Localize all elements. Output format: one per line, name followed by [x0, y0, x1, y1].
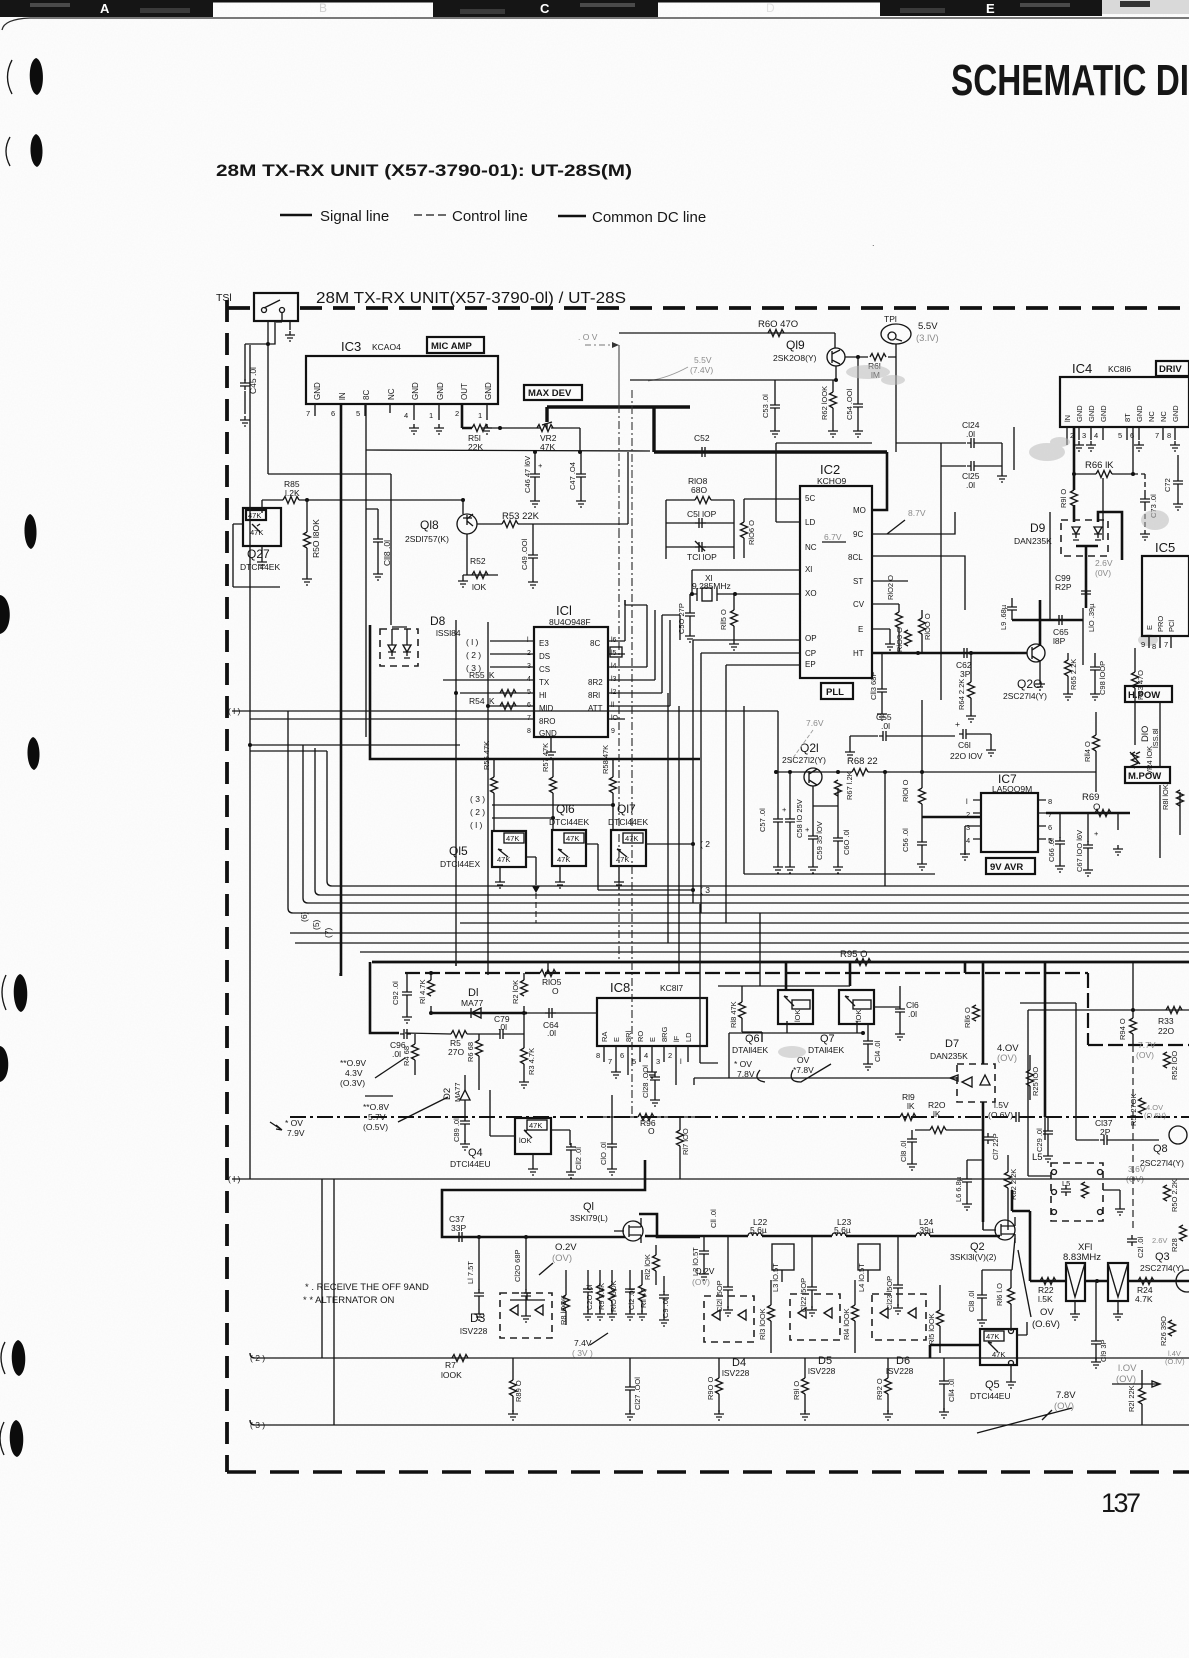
svg-text:C9 .0l: C9 .0l — [661, 1298, 670, 1318]
svg-text:C2l .0l: C2l .0l — [1136, 1236, 1145, 1258]
svg-text:DAN235K: DAN235K — [930, 1051, 968, 1061]
svg-text:C29 .0l: C29 .0l — [1035, 1128, 1044, 1152]
svg-text:R26 39O: R26 39O — [1159, 1316, 1168, 1346]
svg-text:C57 .0l: C57 .0l — [758, 808, 767, 832]
svg-text:KC8l6: KC8l6 — [1108, 364, 1131, 374]
svg-text:( l ): ( l ) — [228, 706, 240, 716]
svg-text:R89 O: R89 O — [514, 1380, 523, 1402]
svg-text:PLL: PLL — [826, 687, 844, 698]
svg-text:5.5V: 5.5V — [918, 321, 938, 332]
svg-text:Q7: Q7 — [820, 1033, 835, 1045]
svg-text:lOOK: lOOK — [441, 1370, 462, 1380]
svg-text:Rll4 O: Rll4 O — [1083, 741, 1092, 762]
svg-text:LlO .39µ: LlO .39µ — [1087, 603, 1096, 632]
svg-text:R53 22K: R53 22K — [502, 511, 540, 522]
svg-text:DAN235K: DAN235K — [1014, 536, 1052, 546]
svg-text:(O.lV): (O.lV) — [1165, 1357, 1185, 1366]
svg-text:( 3V ): ( 3V ) — [572, 1348, 593, 1358]
svg-text:2: 2 — [966, 810, 970, 819]
svg-text:l8P: l8P — [1053, 636, 1066, 646]
svg-text:**O.8V: **O.8V — [363, 1102, 389, 1112]
svg-text:OUT: OUT — [460, 383, 469, 400]
svg-text:R2P: R2P — [1055, 582, 1072, 592]
svg-text:R94 O: R94 O — [1118, 1018, 1127, 1040]
svg-text:*7.8V: *7.8V — [793, 1065, 814, 1075]
svg-text:E: E — [986, 1, 995, 16]
svg-text:R7: R7 — [445, 1360, 456, 1370]
svg-text:(O.5V): (O.5V) — [363, 1122, 388, 1132]
svg-text:C58 lO 25V: C58 lO 25V — [795, 799, 804, 838]
svg-text:9: 9 — [611, 728, 615, 735]
svg-text:RlO2 O: RlO2 O — [886, 575, 895, 600]
svg-text:Hl: Hl — [539, 691, 547, 700]
svg-text:R58 47K: R58 47K — [601, 745, 610, 774]
svg-text:DTCl44EU: DTCl44EU — [450, 1159, 491, 1169]
svg-text:.0l: .0l — [966, 480, 975, 490]
svg-text:lSV228: lSV228 — [722, 1368, 750, 1378]
svg-text:D3: D3 — [470, 1311, 486, 1325]
svg-text:R62 lOOK: R62 lOOK — [820, 386, 829, 420]
svg-text:.39µ: .39µ — [917, 1225, 934, 1235]
svg-text:C2O .0l: C2O .0l — [585, 1284, 594, 1310]
svg-text:C56 .0l: C56 .0l — [901, 828, 910, 852]
svg-text:XO: XO — [805, 589, 817, 598]
svg-text:GND: GND — [411, 382, 420, 400]
svg-text:( l ): ( l ) — [470, 820, 482, 830]
svg-text:R68 22: R68 22 — [847, 756, 878, 767]
svg-text:8C: 8C — [362, 390, 371, 400]
svg-text:Cl2O 68P: Cl2O 68P — [513, 1249, 522, 1282]
svg-text:Common DC line: Common DC line — [592, 209, 706, 226]
svg-text:lOK: lOK — [793, 1009, 802, 1022]
svg-text:R5O 2.2K: R5O 2.2K — [1170, 1179, 1179, 1212]
svg-text:CV: CV — [853, 600, 865, 609]
svg-text:( 2 ): ( 2 ) — [466, 650, 481, 660]
svg-text:DRlV: DRlV — [1159, 364, 1182, 375]
svg-text:IC8: IC8 — [610, 980, 630, 995]
svg-text:RO: RO — [636, 1031, 645, 1042]
svg-text:lOK: lOK — [854, 1009, 863, 1022]
svg-text:7: 7 — [1048, 810, 1052, 819]
svg-text:28M TX-RX UNIT(X57-3790-0l) /: 28M TX-RX UNIT(X57-3790-0l) / UT-28S — [316, 290, 626, 307]
svg-text:47K: 47K — [540, 442, 555, 452]
svg-text:.0l: .0l — [908, 1009, 917, 1019]
svg-text:O.2V: O.2V — [555, 1242, 577, 1253]
svg-text:8T: 8T — [1123, 413, 1132, 422]
svg-text:8: 8 — [1152, 642, 1156, 651]
svg-text:NC: NC — [1159, 411, 1168, 422]
svg-text:ICl: ICl — [556, 603, 572, 618]
svg-text:47K: 47K — [566, 834, 579, 843]
svg-text:lSS.8l: lSS.8l — [1151, 728, 1160, 748]
svg-text:7.4V: 7.4V — [574, 1338, 592, 1348]
svg-text:7: 7 — [1164, 640, 1168, 649]
svg-text:.0l: .0l — [881, 721, 890, 731]
svg-text:DTCl44EK: DTCl44EK — [240, 562, 280, 572]
svg-text:7.8V: 7.8V — [1056, 1390, 1076, 1401]
svg-text:5: 5 — [632, 1057, 636, 1066]
svg-text:6.7V: 6.7V — [824, 532, 842, 542]
svg-text:R33: R33 — [1158, 1016, 1174, 1026]
svg-text:DS: DS — [539, 652, 550, 661]
svg-text:6: 6 — [331, 409, 335, 418]
svg-text:Ll 7.5T: Ll 7.5T — [466, 1261, 475, 1284]
svg-text:Rl6 l.O: Rl6 l.O — [995, 1283, 1004, 1306]
svg-text:.0l: .0l — [966, 429, 975, 439]
svg-text:C98 lOOP: C98 lOOP — [1098, 661, 1107, 695]
svg-text:Signal line: Signal line — [320, 208, 389, 225]
svg-text:3: 3 — [1082, 431, 1086, 440]
svg-text:8: 8 — [596, 1051, 600, 1060]
svg-text:Rl3 lOOK: Rl3 lOOK — [758, 1308, 767, 1340]
svg-text:KCAO4: KCAO4 — [372, 342, 401, 352]
svg-text:(O.6V): (O.6V) — [1144, 1111, 1167, 1120]
svg-text:GND: GND — [1171, 405, 1180, 422]
svg-text:Cll4 .0l: Cll4 .0l — [947, 1379, 956, 1402]
svg-text:NC: NC — [1147, 411, 1156, 422]
svg-text:4.7K: 4.7K — [1135, 1294, 1153, 1304]
svg-text:2: 2 — [668, 1051, 672, 1060]
svg-text:8RO: 8RO — [539, 717, 555, 726]
svg-text:DTCl44EX: DTCl44EX — [440, 859, 480, 869]
svg-text:47K: 47K — [616, 855, 629, 864]
svg-text:DlO: DlO — [1140, 726, 1151, 742]
svg-text:D9: D9 — [1030, 521, 1046, 535]
svg-text:lK: lK — [907, 1101, 915, 1111]
svg-text:GND: GND — [484, 382, 493, 400]
svg-text:2.6V: 2.6V — [1152, 1236, 1167, 1245]
svg-text:(5): (5) — [311, 919, 321, 930]
svg-text:LD: LD — [684, 1032, 693, 1042]
svg-text:8RG: 8RG — [660, 1026, 669, 1042]
svg-text:7.9V: 7.9V — [287, 1128, 305, 1138]
svg-text:4.3V: 4.3V — [345, 1068, 363, 1078]
svg-text:8C: 8C — [590, 639, 600, 648]
svg-text:7.6V: 7.6V — [806, 718, 824, 728]
svg-text:2SC27l4(Y): 2SC27l4(Y) — [1140, 1263, 1184, 1273]
svg-text:GND: GND — [1075, 405, 1084, 422]
svg-text:5.5V: 5.5V — [694, 355, 712, 365]
svg-text:(O.6V): (O.6V) — [988, 1110, 1013, 1120]
svg-text:Rl 4.7K: Rl 4.7K — [418, 979, 427, 1004]
svg-text:C: C — [540, 1, 550, 16]
svg-text:DTCl44EU: DTCl44EU — [970, 1391, 1011, 1401]
svg-text:RlOl O: RlOl O — [901, 779, 910, 802]
svg-text:R55 lK: R55 lK — [469, 670, 495, 680]
svg-text:(OV): (OV) — [997, 1053, 1017, 1064]
svg-text:KCHO9: KCHO9 — [817, 476, 847, 486]
svg-text:DTCl44EK: DTCl44EK — [608, 817, 648, 827]
svg-text:O: O — [648, 1126, 655, 1136]
svg-text:C59 35 lOV: C59 35 lOV — [815, 821, 824, 860]
svg-text:* OV: * OV — [285, 1118, 303, 1128]
svg-text:* OV: * OV — [734, 1059, 752, 1069]
svg-text:2P: 2P — [1100, 1127, 1111, 1137]
svg-text:R6 68: R6 68 — [466, 1042, 475, 1062]
svg-text:Rl5 lOOK: Rl5 lOOK — [927, 1313, 936, 1345]
svg-text:RA: RA — [600, 1032, 609, 1042]
svg-text:8Rl: 8Rl — [588, 691, 600, 700]
svg-text:KC8l7: KC8l7 — [660, 983, 683, 993]
svg-text:3SKl79(L): 3SKl79(L) — [570, 1213, 608, 1223]
svg-text:GND: GND — [1135, 405, 1144, 422]
svg-text:Q2l: Q2l — [800, 741, 819, 755]
svg-text:7: 7 — [1155, 431, 1159, 440]
svg-text:H.POW: H.POW — [1128, 690, 1160, 701]
svg-text:7: 7 — [306, 409, 310, 418]
svg-text:R3 4.7K: R3 4.7K — [527, 1048, 536, 1075]
svg-text:68O: 68O — [691, 485, 707, 495]
svg-text:47K: 47K — [497, 855, 510, 864]
svg-text:lK: lK — [933, 1109, 941, 1119]
svg-text:Cll .0l: Cll .0l — [709, 1209, 718, 1228]
svg-text:5: 5 — [1118, 431, 1122, 440]
svg-text:Ql9: Ql9 — [786, 338, 805, 352]
svg-text:28M TX-RX UNIT (X57-3790-01):: 28M TX-RX UNIT (X57-3790-01): UT-28S(M) — [216, 161, 632, 180]
svg-text:IC2: IC2 — [820, 462, 840, 477]
svg-text:L6 6.8µ: L6 6.8µ — [954, 1176, 963, 1202]
svg-text:E: E — [1145, 625, 1154, 630]
svg-text:**O.9V: **O.9V — [340, 1058, 366, 1068]
svg-text:C6O .0l: C6O .0l — [842, 829, 851, 855]
svg-text:Ql8: Ql8 — [420, 518, 439, 532]
svg-text:SCHEMATIC DI: SCHEMATIC DI — [951, 56, 1189, 105]
svg-text:7: 7 — [608, 1057, 612, 1066]
svg-text:Cll2 .0l: Cll2 .0l — [574, 1147, 583, 1170]
svg-text:Rll6 O: Rll6 O — [963, 1007, 972, 1028]
svg-text:R57 47K: R57 47K — [541, 743, 550, 772]
svg-text:R92 O: R92 O — [875, 1378, 884, 1400]
svg-text:Cl28 .OOl: Cl28 .OOl — [641, 1065, 650, 1098]
svg-text:OV: OV — [1040, 1307, 1054, 1318]
svg-text:R6O 47O: R6O 47O — [758, 319, 798, 330]
svg-text:Rl7 lOO: Rl7 lOO — [681, 1128, 690, 1155]
svg-text:5: 5 — [356, 409, 360, 418]
svg-text:2SC27l4(Y): 2SC27l4(Y) — [1140, 1158, 1184, 1168]
svg-text:PRO: PRO — [1156, 616, 1165, 632]
svg-text:Cll8 .0l: Cll8 .0l — [382, 540, 392, 566]
svg-text:R8l lOK: R8l lOK — [1161, 784, 1170, 810]
svg-text:. O V: . O V — [578, 332, 598, 342]
svg-text:R82 2.2K: R82 2.2K — [1009, 1169, 1018, 1200]
svg-text:C47 .O4: C47 .O4 — [568, 462, 577, 490]
svg-text:3: 3 — [656, 1057, 660, 1066]
svg-text:8.7V: 8.7V — [908, 508, 926, 518]
svg-text:RlOO O: RlOO O — [923, 613, 932, 640]
svg-text:4: 4 — [644, 1051, 648, 1060]
svg-text:+: + — [805, 825, 810, 834]
svg-text:C5O 27P: C5O 27P — [677, 603, 686, 634]
svg-text:(7.4V): (7.4V) — [690, 365, 713, 375]
svg-text:3: 3 — [966, 823, 970, 832]
svg-text:(O.3V): (O.3V) — [340, 1078, 365, 1088]
svg-text:Cl27 .OOl: Cl27 .OOl — [633, 1377, 642, 1410]
svg-text:2: 2 — [455, 409, 459, 418]
svg-text:ST: ST — [853, 577, 863, 586]
svg-text:* * ALTERNATOR ON: * * ALTERNATOR ON — [303, 1295, 394, 1306]
svg-text:C5l lOP: C5l lOP — [687, 509, 717, 519]
svg-text:47K: 47K — [992, 1350, 1005, 1359]
svg-text:8.83MHz: 8.83MHz — [1063, 1252, 1101, 1263]
svg-text:8: 8 — [1048, 797, 1052, 806]
svg-text:Cl7 22P: Cl7 22P — [991, 1133, 1000, 1160]
svg-text:47K: 47K — [557, 855, 570, 864]
svg-text:OV: OV — [797, 1055, 810, 1065]
svg-text:(0V): (0V) — [1095, 568, 1111, 578]
svg-text:B: B — [319, 1, 327, 15]
svg-text:DTAll4EK: DTAll4EK — [808, 1045, 845, 1055]
svg-text:RlO6 O: RlO6 O — [747, 520, 756, 545]
svg-text:L3 lO.5T: L3 lO.5T — [771, 1263, 780, 1292]
svg-text:lSV228: lSV228 — [808, 1366, 836, 1376]
svg-text:1: 1 — [429, 411, 433, 420]
svg-text:DTAll4EK: DTAll4EK — [732, 1045, 769, 1055]
svg-text:* . RECElVE THE OFF 9AND: * . RECElVE THE OFF 9AND — [305, 1282, 429, 1293]
svg-text:.0l: .0l — [498, 1022, 507, 1032]
svg-text:lOK: lOK — [519, 1136, 532, 1145]
svg-text:( l ): ( l ) — [228, 1174, 240, 1184]
svg-text:C53 .0l: C53 .0l — [761, 394, 770, 418]
svg-text:(7): (7) — [323, 927, 333, 938]
svg-text:L5: L5 — [1062, 1179, 1070, 1188]
svg-text:E: E — [612, 1037, 621, 1042]
svg-text:Control line: Control line — [452, 208, 528, 225]
svg-text:(O.6V): (O.6V) — [1032, 1319, 1060, 1330]
svg-text:C92 .0l: C92 .0l — [391, 981, 400, 1005]
svg-text:NC: NC — [805, 543, 817, 552]
svg-text:C46 47 l6V: C46 47 l6V — [523, 456, 532, 493]
svg-text:MO: MO — [853, 506, 866, 515]
svg-text:NC: NC — [387, 388, 396, 400]
svg-text:CS: CS — [539, 665, 550, 674]
svg-text:D2: D2 — [442, 1088, 453, 1100]
svg-text:MlC AMP: MlC AMP — [431, 341, 472, 352]
svg-text:IC5: IC5 — [1155, 540, 1175, 555]
svg-text:( 3 ): ( 3 ) — [470, 794, 485, 804]
svg-text:Rl4 lOOK: Rl4 lOOK — [842, 1308, 851, 1340]
svg-text:lN: lN — [1063, 415, 1072, 422]
svg-text:Cl8 .0l: Cl8 .0l — [967, 1290, 976, 1312]
svg-text:Q3: Q3 — [1155, 1251, 1170, 1263]
svg-text:Xl: Xl — [805, 565, 812, 574]
svg-text:E: E — [858, 625, 863, 634]
svg-text:LA5OO9M: LA5OO9M — [992, 784, 1032, 794]
svg-text:(OV): (OV) — [552, 1253, 572, 1264]
svg-text:8CL: 8CL — [848, 553, 863, 562]
svg-text:R54 lK: R54 lK — [469, 696, 495, 706]
svg-text:8U4O948F: 8U4O948F — [549, 617, 591, 627]
svg-text:R67 l.2K: R67 l.2K — [845, 771, 854, 800]
svg-text:D7: D7 — [945, 1038, 959, 1050]
svg-text:R28: R28 — [1170, 1238, 1179, 1252]
svg-text:O: O — [552, 986, 559, 996]
svg-text:Ql: Ql — [583, 1201, 594, 1213]
svg-text:OP: OP — [805, 634, 817, 643]
svg-text:L5: L5 — [1032, 1152, 1043, 1163]
svg-text:+: + — [1094, 829, 1099, 838]
svg-text:7.7V: 7.7V — [1138, 1040, 1156, 1050]
svg-text:E3: E3 — [539, 639, 549, 648]
svg-text:R52 lOO: R52 lOO — [1170, 1051, 1179, 1080]
svg-text:.0l: .0l — [547, 1028, 556, 1038]
svg-text:ClO .0l: ClO .0l — [599, 1142, 608, 1165]
svg-text:Ql5: Ql5 — [449, 844, 468, 858]
svg-text:R5l 27OK: R5l 27OK — [1129, 1093, 1138, 1126]
svg-text:lSV228: lSV228 — [460, 1326, 488, 1336]
svg-text:R56 47K: R56 47K — [482, 741, 491, 770]
svg-text:R64 2.2K: R64 2.2K — [957, 679, 966, 710]
svg-text:R52: R52 — [470, 556, 486, 566]
svg-text:2SK2O8(Y): 2SK2O8(Y) — [773, 353, 817, 363]
svg-text:9: 9 — [1141, 640, 1145, 649]
svg-text:l.5K: l.5K — [1038, 1294, 1053, 1304]
svg-text:47K: 47K — [506, 834, 519, 843]
svg-text:Cll3 68P: Cll3 68P — [869, 672, 878, 700]
svg-text:C54 .OOl: C54 .OOl — [845, 388, 854, 420]
svg-text:lSSl84: lSSl84 — [436, 628, 461, 638]
svg-text:R2l 22K: R2l 22K — [1127, 1385, 1136, 1412]
svg-text:TSl: TSl — [216, 292, 232, 304]
svg-text:.0l: .0l — [392, 1049, 401, 1059]
svg-text:l.OV: l.OV — [1118, 1363, 1137, 1374]
svg-text:MAX DEV: MAX DEV — [528, 388, 572, 399]
svg-text:Q5: Q5 — [985, 1379, 1000, 1391]
svg-text:C67 lOO l6V: C67 lOO l6V — [1075, 830, 1084, 872]
svg-text:C89 .0l: C89 .0l — [452, 1118, 461, 1142]
svg-text:47K: 47K — [986, 1332, 999, 1341]
svg-text:A: A — [100, 1, 110, 16]
svg-text:TPl: TPl — [884, 314, 897, 324]
svg-text:8: 8 — [527, 728, 531, 735]
svg-text:D8: D8 — [430, 614, 446, 628]
svg-text:GND: GND — [436, 382, 445, 400]
svg-text:GND: GND — [1099, 405, 1108, 422]
svg-text:3SKl3l(V)(2): 3SKl3l(V)(2) — [950, 1252, 996, 1262]
svg-text:3P: 3P — [960, 669, 971, 679]
svg-text:Q8: Q8 — [1153, 1143, 1168, 1155]
svg-text:C49 .OOl: C49 .OOl — [520, 538, 529, 570]
svg-text:L4 lO.5T: L4 lO.5T — [857, 1263, 866, 1292]
svg-text:Rl8 47K: Rl8 47K — [729, 1001, 738, 1028]
svg-text:IC3: IC3 — [341, 339, 361, 354]
svg-text:22O lOV: 22O lOV — [950, 751, 983, 761]
svg-text:GND: GND — [1087, 405, 1096, 422]
svg-text:lN: lN — [338, 392, 347, 400]
svg-text:L9 .68µ: L9 .68µ — [999, 604, 1008, 630]
svg-text:Q6: Q6 — [745, 1033, 760, 1045]
svg-text:HT: HT — [853, 649, 864, 658]
svg-text:DTCl44EK: DTCl44EK — [549, 817, 589, 827]
svg-text:( 2 ): ( 2 ) — [470, 807, 485, 817]
svg-text:+: + — [538, 461, 543, 470]
svg-text:R25 lOO: R25 lOO — [1031, 1067, 1040, 1096]
svg-text:4: 4 — [966, 836, 970, 845]
svg-text:5C: 5C — [805, 494, 815, 503]
svg-text:R9l O: R9l O — [792, 1381, 801, 1400]
svg-text:+: + — [955, 719, 960, 729]
svg-text:47K: 47K — [529, 1121, 542, 1130]
svg-text:3.6V: 3.6V — [1128, 1164, 1146, 1174]
svg-text:(OV): (OV) — [692, 1277, 710, 1287]
svg-text:22K: 22K — [468, 442, 483, 452]
svg-text:Rl2 lOK: Rl2 lOK — [643, 1254, 652, 1280]
svg-text:6: 6 — [1048, 823, 1052, 832]
svg-text:9V AVR: 9V AVR — [990, 862, 1023, 873]
svg-text:LD: LD — [805, 518, 815, 527]
svg-text:C52: C52 — [694, 433, 710, 443]
svg-text:2SC27l2(Y): 2SC27l2(Y) — [782, 755, 826, 765]
svg-text:33P: 33P — [451, 1223, 466, 1233]
